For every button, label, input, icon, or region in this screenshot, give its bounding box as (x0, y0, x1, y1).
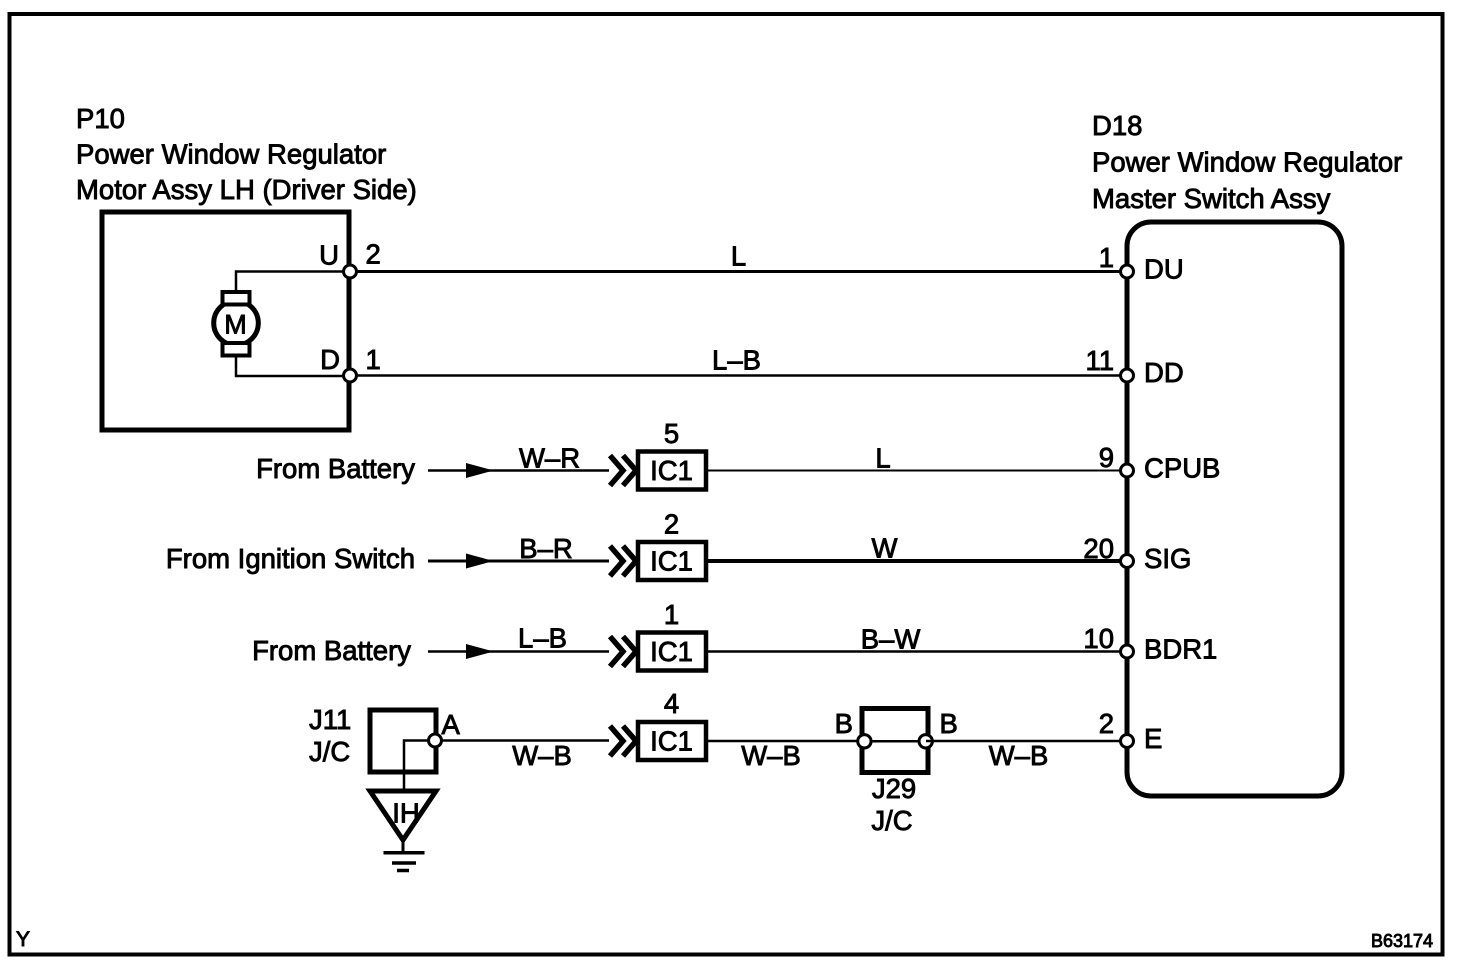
svg-text:U: U (319, 240, 339, 271)
svg-text:5: 5 (664, 418, 679, 449)
svg-text:BDR1: BDR1 (1144, 634, 1217, 665)
svg-text:From Battery: From Battery (252, 635, 411, 666)
svg-text:B–R: B–R (519, 533, 573, 564)
svg-text:Master Switch Assy: Master Switch Assy (1092, 183, 1331, 214)
svg-text:B63174: B63174 (1371, 931, 1433, 951)
svg-text:From Ignition Switch: From Ignition Switch (166, 543, 415, 574)
svg-text:J11: J11 (309, 704, 351, 735)
svg-text:2: 2 (366, 239, 381, 270)
svg-text:CPUB: CPUB (1144, 453, 1220, 484)
svg-text:E: E (1144, 723, 1162, 754)
svg-text:1: 1 (1099, 242, 1114, 273)
svg-text:W–B: W–B (512, 740, 572, 771)
svg-text:B: B (835, 708, 853, 739)
svg-text:IC1: IC1 (650, 636, 693, 667)
svg-text:W–B: W–B (989, 740, 1049, 771)
svg-text:L–B: L–B (712, 345, 761, 376)
svg-text:2: 2 (664, 509, 679, 540)
svg-text:1: 1 (366, 344, 381, 375)
svg-text:D: D (320, 344, 340, 375)
svg-text:DD: DD (1144, 357, 1184, 388)
svg-text:J29: J29 (872, 773, 916, 804)
svg-text:L: L (731, 241, 746, 272)
svg-text:IC1: IC1 (650, 455, 693, 486)
svg-text:Power Window Regulator: Power Window Regulator (76, 139, 386, 170)
svg-text:W–B: W–B (741, 740, 801, 771)
svg-text:From Battery: From Battery (256, 453, 415, 484)
svg-text:P10: P10 (76, 103, 125, 134)
svg-text:B–W: B–W (861, 624, 921, 655)
svg-text:Y: Y (16, 928, 30, 951)
svg-text:A: A (442, 709, 461, 740)
svg-text:M: M (224, 310, 247, 340)
svg-text:SIG: SIG (1144, 543, 1191, 574)
svg-text:B: B (940, 708, 958, 739)
svg-text:J/C: J/C (309, 736, 350, 767)
svg-text:DU: DU (1144, 254, 1184, 285)
svg-text:11: 11 (1085, 345, 1114, 376)
svg-text:1: 1 (664, 599, 679, 630)
svg-text:W: W (872, 533, 898, 564)
svg-text:Power Window Regulator: Power Window Regulator (1092, 147, 1402, 178)
svg-text:W–R: W–R (519, 443, 580, 474)
svg-text:IC1: IC1 (650, 546, 693, 577)
svg-text:IH: IH (392, 798, 420, 829)
svg-text:L–B: L–B (518, 623, 567, 654)
svg-text:J/C: J/C (871, 805, 912, 836)
svg-text:2: 2 (1099, 708, 1114, 739)
svg-text:IC1: IC1 (650, 726, 693, 757)
svg-text:Motor Assy LH (Driver Side): Motor Assy LH (Driver Side) (76, 174, 417, 205)
svg-text:D18: D18 (1092, 110, 1142, 141)
svg-text:L: L (875, 443, 890, 474)
svg-text:20: 20 (1083, 533, 1114, 564)
svg-text:10: 10 (1083, 623, 1114, 654)
svg-text:4: 4 (664, 688, 679, 719)
svg-text:9: 9 (1099, 442, 1114, 473)
